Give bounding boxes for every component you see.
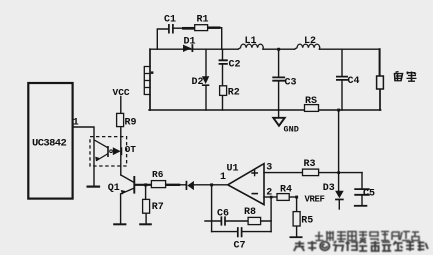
resistor R3 [303,169,319,176]
svg-text:OT: OT [125,144,137,155]
svg-text:VREF: VREF [305,194,325,204]
op-amp minus sign [252,193,259,195]
svg-text:U1: U1 [227,163,239,174]
wire diode to op-amp apex [194,184,228,186]
svg-text:1: 1 [220,172,226,183]
svg-text:R4: R4 [280,184,292,195]
junction node bus RS [337,109,340,112]
svg-text:3: 3 [266,162,272,173]
wire R1 branch down [219,28,222,50]
svg-text:R2: R2 [228,87,240,98]
transistor Q1 emitter diagonal [121,188,134,194]
wire R9 to optocoupler [120,127,122,175]
wire Q1 emitter down [120,194,122,224]
svg-text:R8: R8 [244,207,256,218]
svg-text:Q1: Q1 [108,183,120,194]
transistor Q1 emitter arrowhead [121,190,126,195]
junction node R4 VREF [295,196,298,199]
svg-text:RS: RS [305,96,317,107]
optocoupler collector diagonal [95,140,108,148]
junction node R7 top [144,183,147,186]
wire C5 end bar [355,205,367,207]
svg-text:L2: L2 [304,36,316,47]
diode D4 feedback [186,181,194,190]
svg-text:C2: C2 [229,59,241,70]
inductor L1 coil [238,44,263,49]
junction node R3 D3 [337,171,340,174]
svg-text:R1: R1 [197,14,209,25]
wire C4 branch [341,49,343,110]
svg-text:R3: R3 [304,159,316,170]
wire C2 R2 branch [222,49,224,110]
svg-text:C3: C3 [285,77,297,88]
resistor R6 [151,181,165,188]
wire D2 branch [205,49,207,110]
optocoupler emitter arrowhead [95,157,99,162]
diode D2 [202,76,209,86]
capacitor C4 plates [337,77,347,80]
svg-text:C7: C7 [234,241,246,252]
wire L1 to L2 [263,48,294,50]
wire op-amp pin3 to R3 [264,172,303,174]
watermark line2 [294,241,428,252]
diode D3 [335,191,344,201]
wire op-amp pin2 to R4 [264,196,277,198]
wire load bottom [379,89,381,110]
ground symbol GND triangle [273,118,284,126]
capacitor C2 plates [220,60,227,64]
resistor R5 [293,212,300,226]
svg-text:D3: D3 [323,183,335,194]
svg-text:D2: D2 [192,77,204,88]
svg-text:C5: C5 [363,188,375,199]
wire R4 to VREF [289,196,297,198]
svg-text:UC3842: UC3842 [32,137,67,149]
svg-text:C4: C4 [348,76,360,87]
wire R3 to C5 [319,172,362,174]
wire opto to Q1 base diagonal [121,175,134,182]
capacitor C7 plates [238,228,242,236]
wire L2 to load corner [320,48,380,50]
capacitor C1 plates [169,25,173,33]
svg-text:VCC: VCC [113,87,130,98]
wire feedback left vertical [211,185,213,232]
optocoupler emitter diagonal [96,154,108,161]
wire thick stub into R1 [183,27,194,30]
optocoupler LED bar [120,147,122,155]
capacitor C5 plates [355,189,369,195]
capacitor C6 plates [221,217,225,225]
wire C1 to R1 [174,27,184,29]
wire load drop [379,49,381,76]
wire UC3842 pin1 [73,127,94,186]
IC UC3842 box [28,83,72,199]
transformer winding bumps [144,67,150,95]
svg-text:1: 1 [73,118,79,129]
transistor Q1 base bar [133,176,135,194]
wire GND stub [278,110,280,117]
label load 负载 [395,71,417,81]
optocoupler OT dashed box [90,137,127,166]
wire Q1 emitter ground bar [114,223,125,225]
junction node L1 L2 [277,48,280,51]
wire R5 branch [296,197,298,237]
wire feedback drop from bus [338,110,340,191]
op-amp plus sign [251,170,258,177]
svg-text:GND: GND [284,125,299,135]
svg-text:C1: C1 [164,14,176,25]
watermark line1 [315,231,419,241]
junction node pin2 fb [270,196,273,199]
inductor L2 coil [295,44,320,49]
winding polarity dot [151,71,154,74]
svg-text:R7: R7 [152,202,164,213]
svg-text:C6: C6 [217,208,229,219]
optocoupler LED circle [110,150,113,153]
svg-text:R6: R6 [152,169,164,180]
resistor load [377,76,384,89]
wire R5 ground bar [290,236,301,238]
svg-text:D1: D1 [184,37,196,48]
resistor RS [305,105,319,112]
transformer winding T1 vertical [149,49,151,110]
resistor R8 [248,217,261,224]
wire VCC stub [120,97,122,114]
wire C5 vertical [361,173,363,206]
diode D1 [183,44,193,52]
optocoupler LED triangle [113,147,121,155]
capacitor C3 plates [273,77,284,80]
resistor R4 [277,194,289,201]
wire C3 branch [278,49,280,110]
wire bottom bus [149,109,381,111]
wire feedback top row [205,220,271,222]
wire R7 ground bar [140,223,151,225]
wire top rail to L1 [150,48,238,50]
resistor R1 [195,25,208,31]
svg-text:R5: R5 [301,215,313,226]
wire thick stub out of R1 [208,26,220,29]
resistor R9 [117,113,124,126]
junction node feedback left [210,183,213,186]
wire C1 branch left [157,29,168,49]
wire feedback right vertical [270,197,272,232]
wire R6 to diode [179,184,186,186]
svg-text:2: 2 [266,187,272,198]
wire D3 bottom stub [338,200,340,209]
svg-text:L1: L1 [245,36,257,47]
wire thick Q1 base to R6 [135,184,151,186]
resistor R2 [220,86,227,96]
op-amp U1 triangle [228,164,264,205]
wire feedback bottom row [212,231,272,233]
wire pin1 end bar [88,186,99,188]
wire thick stub R6 right [166,184,179,186]
svg-text:R9: R9 [125,117,137,128]
wire R7 branch [145,185,148,224]
optocoupler transistor bar [107,146,109,157]
resistor R7 [143,199,150,213]
